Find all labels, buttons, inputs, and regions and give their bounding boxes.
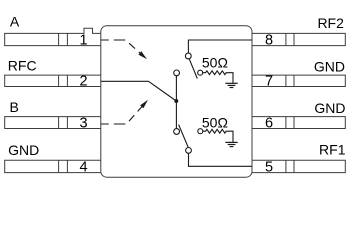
pin 8 tick marks [286,33,294,45]
pin 2 lead (RFC) [5,75,101,86]
switch contact (lower throw, RF1 series) [174,129,180,135]
svg-text:50Ω: 50Ω [202,114,228,130]
pin 5 tick marks [286,160,294,172]
switch arm (RF1 series, thrown toward lower throw contact) [179,125,189,148]
pin 1 lead (A) with pin-1 notch [5,28,101,45]
ground (lower termination) [225,142,237,146]
switch contact (RF2 branch, pin-8 side) [185,53,191,59]
pin 7 lead (GND) [252,75,345,86]
svg-text:GND: GND [314,58,345,74]
pin 1 tick marks [59,33,68,45]
svg-text:RFC: RFC [8,57,37,73]
svg-text:3: 3 [80,115,88,131]
pin 5 lead (RF1) [252,160,345,172]
svg-text:1: 1 [80,32,88,48]
wire RFC (pin 2 to common node) [101,81,177,101]
pin 3 tick marks [59,117,68,129]
node common junction (RFC) [174,99,178,103]
svg-text:4: 4 [80,159,88,175]
wire common to upper throw contact [175,76,177,101]
switch arm (RF2 shunt, thrown toward 50 ohm contact) [189,59,197,79]
switch contact (upper 50 ohm side) [198,70,203,75]
wire RF2 (pin 8 to series contact) [188,40,252,53]
svg-text:GND: GND [314,100,345,116]
svg-text:8: 8 [265,32,273,48]
switch contact (lower 50 ohm side) [198,129,203,134]
control arrow from pin A [101,40,142,55]
pin 7 tick marks [286,75,294,86]
svg-text:50Ω: 50Ω [202,54,228,70]
svg-text:A: A [10,14,20,30]
arrowhead (control B) [140,100,148,109]
arrowhead (control A) [138,51,147,59]
ground (upper termination) [225,83,237,87]
wire RF1 (contact to pin 5) [189,153,253,166]
pin 4 lead (GND) [5,160,101,172]
pin 4 tick marks [59,160,68,172]
pin 2 tick marks [59,75,68,86]
svg-text:B: B [10,99,19,115]
pin 3 lead (B) [5,117,101,129]
svg-text:6: 6 [265,115,273,131]
pin 6 tick marks [286,117,294,129]
pin 6 lead (GND) [252,117,345,129]
svg-text:RF1: RF1 [319,142,346,158]
svg-text:RF2: RF2 [317,15,344,31]
resistor 50 ohm (RF2 termination) [203,71,233,84]
pin 8 lead (RF2) [252,33,345,45]
switch contact (upper throw, RF2 series) [174,70,180,76]
switch contact (RF1 branch, pin-5 side) [186,148,192,154]
svg-text:5: 5 [265,159,273,175]
svg-text:GND: GND [8,142,39,158]
IC body U1 [101,26,252,178]
wire common to lower throw contact [175,101,177,129]
svg-text:7: 7 [265,73,273,89]
resistor 50 ohm (RF1 termination) [203,129,233,142]
svg-text:2: 2 [80,73,88,89]
control arrow from pin B [101,106,143,124]
